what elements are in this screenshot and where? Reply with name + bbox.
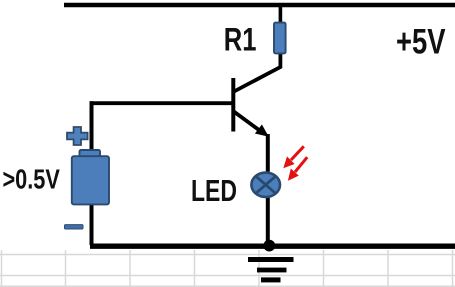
svg-text:LED: LED — [191, 174, 237, 208]
svg-text:+5V: +5V — [396, 21, 446, 61]
svg-text:R1: R1 — [224, 23, 257, 58]
svg-text:>0.5V: >0.5V — [3, 165, 61, 195]
